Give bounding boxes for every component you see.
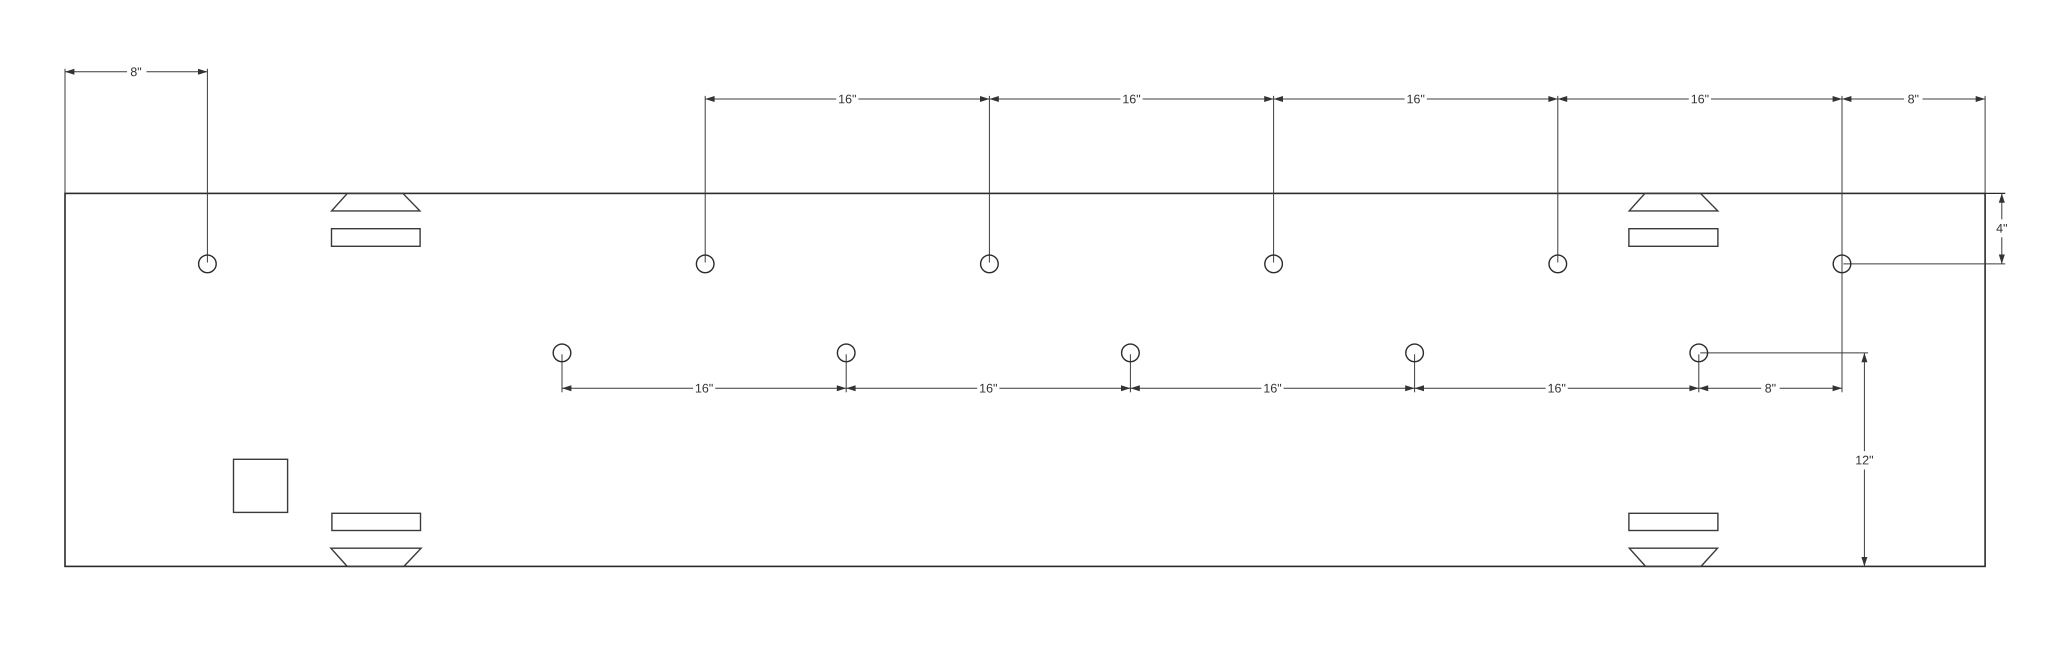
- extension line bolt A3: [988, 96, 990, 263]
- hold-down B2 trapezoid bottom-right: [1629, 548, 1717, 566]
- bolt B4: [1406, 344, 1424, 362]
- bolt B3: [1122, 344, 1140, 362]
- bolt A3: [981, 255, 999, 273]
- panel outline: [65, 193, 1985, 566]
- dimension 16in bottom 2: [846, 387, 977, 389]
- extension line bolt A6 long: [1841, 96, 1843, 392]
- dimension 8in top-left line: [65, 71, 127, 73]
- hold-down B1 plate rect bottom-left: [332, 513, 421, 530]
- bolt A5: [1549, 255, 1567, 273]
- dimension 16in top 1: [705, 98, 836, 100]
- extension line bolt B3: [1129, 354, 1131, 392]
- extension line bolt A4: [1273, 96, 1275, 263]
- label 8in top-left: [131, 67, 137, 76]
- dimension 8in top-right: [1842, 98, 1904, 100]
- dimension 8in bottom: [1699, 387, 1761, 389]
- arrow right: [198, 69, 207, 75]
- dimension 12in right: [1863, 353, 1865, 451]
- extension line bolt B1: [561, 354, 563, 392]
- dimension 16in bottom 4: [1415, 387, 1546, 389]
- extension line bolt A2: [704, 96, 706, 263]
- bolt A6: [1833, 255, 1851, 273]
- bolt B1: [553, 344, 571, 362]
- bolt A1: [199, 255, 217, 273]
- dimension 16in top 2: [989, 98, 1120, 100]
- blockout square: [234, 459, 288, 512]
- extension line bolt B5: [1698, 354, 1700, 392]
- extension line bolt A1: [206, 69, 208, 263]
- extension line circle B5 to 12in dim: [1700, 352, 1868, 354]
- bolt B2: [837, 344, 855, 362]
- hold-down T2 plate rect: [1629, 229, 1718, 247]
- dimension 16in top 4: [1558, 98, 1689, 100]
- hold-down T1 plate rect: [332, 229, 421, 247]
- bolt A4: [1265, 255, 1283, 273]
- bolt B5: [1690, 344, 1708, 362]
- extension line bolt B4: [1414, 354, 1416, 392]
- dimension 16in top 3: [1274, 98, 1405, 100]
- hold-down B2 plate rect bottom-right: [1629, 513, 1718, 530]
- hold-down B1 trapezoid bottom-left: [331, 548, 421, 566]
- dimension 16in bottom 3: [1130, 387, 1261, 389]
- hold-down T1 trapezoid top-left: [332, 193, 420, 211]
- extension line right edge above panel: [1984, 96, 1986, 193]
- hold-down T2 trapezoid top-right: [1629, 193, 1718, 211]
- dimension 16in bottom 1: [562, 387, 693, 389]
- extension line circle A6 to 4in dim: [1843, 263, 2005, 265]
- arrow left: [65, 69, 74, 75]
- extension line bolt A5: [1557, 96, 1559, 263]
- top edge extension (4in dim): [1985, 192, 2005, 194]
- dimension 4in right: [2001, 193, 2003, 219]
- extension line left edge above panel: [64, 69, 66, 194]
- extension line bolt B2: [845, 354, 847, 392]
- bolt A2: [696, 255, 714, 273]
